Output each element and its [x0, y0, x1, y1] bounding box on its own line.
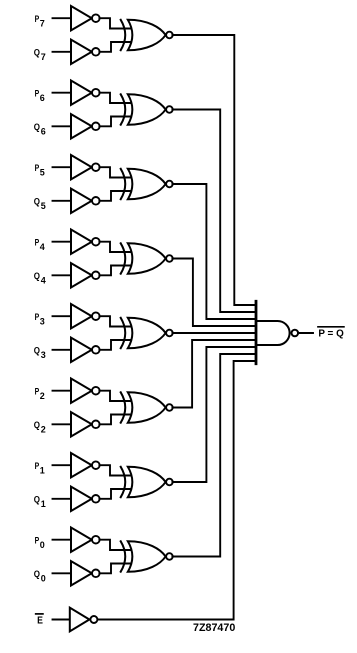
svg-text:2: 2 [40, 391, 45, 401]
inverter P5 [71, 155, 100, 179]
input label Q3 [34, 345, 46, 360]
wire NAND output [298, 332, 313, 334]
inverter Q6 [71, 114, 100, 138]
XNOR gate bit 1 [121, 467, 173, 498]
inverter P4 [71, 230, 100, 254]
svg-text:7: 7 [41, 52, 46, 62]
input label P4 [35, 237, 45, 252]
input label Q5 [34, 196, 46, 211]
wire P7 inverter to XNOR7 [99, 18, 131, 28]
wire P3 input [53, 315, 72, 317]
inverter Q3 [71, 338, 100, 362]
inverter Q5 [71, 189, 100, 213]
wire E inverter to NAND input [98, 361, 257, 620]
wire P0 inverter to XNOR0 [99, 540, 131, 550]
svg-text:Q: Q [34, 494, 40, 505]
input label Q4 [34, 271, 46, 286]
inverter Q1 [71, 487, 100, 511]
wire Q2 inverter to XNOR2 [99, 415, 131, 425]
input label P2 [35, 386, 45, 401]
svg-text:5: 5 [41, 201, 46, 211]
wire P0 input [53, 539, 72, 541]
wire Q4 input [53, 274, 72, 276]
input label E (enable, active low) [36, 614, 43, 627]
inverter P0 [71, 528, 100, 552]
wire XNOR3 output to NAND input [172, 332, 256, 334]
input label P6 [35, 88, 45, 103]
svg-text:7: 7 [40, 19, 45, 29]
NAND gate (9-input, output P=Q) [256, 301, 298, 363]
wire P2 input [53, 390, 72, 392]
wire XNOR2 output to NAND input [172, 340, 256, 408]
inverter P7 [71, 6, 100, 30]
XNOR gate bit 4 [121, 243, 173, 274]
wire P7 input [53, 17, 72, 19]
wire Q6 inverter to XNOR6 [99, 117, 131, 127]
wire Q0 inverter to XNOR0 [99, 564, 131, 574]
inverter Q4 [71, 263, 100, 287]
svg-text:3: 3 [40, 317, 45, 327]
wire P6 input [53, 92, 72, 94]
wire Q3 inverter to XNOR3 [99, 340, 131, 350]
wire P4 input [53, 241, 72, 243]
inverter P3 [71, 304, 100, 328]
XNOR gate bit 6 [121, 94, 173, 125]
wire Q6 input [53, 125, 72, 127]
svg-text:5: 5 [40, 168, 45, 178]
input label Q1 [34, 494, 46, 509]
svg-text:2: 2 [41, 425, 46, 435]
svg-text:Q: Q [34, 420, 40, 431]
wire XNOR5 output to NAND input [172, 184, 256, 319]
XNOR gate bit 3 [121, 318, 173, 349]
wire P1 inverter to XNOR1 [99, 465, 131, 475]
input label Q0 [34, 569, 46, 584]
input label Q2 [34, 420, 46, 435]
svg-text:Q: Q [34, 271, 40, 282]
input label P7 [35, 14, 45, 29]
wire Q4 inverter to XNOR4 [99, 266, 131, 276]
svg-text:6: 6 [41, 127, 46, 137]
wire Q0 input [53, 572, 72, 574]
input label P0 [35, 535, 45, 550]
wire Q7 inverter to XNOR7 [99, 42, 131, 52]
XNOR gate bit 0 [121, 541, 173, 572]
wire P1 input [53, 464, 72, 466]
input label P3 [35, 312, 45, 327]
XNOR gate bit 5 [121, 169, 173, 200]
input label P5 [35, 163, 45, 178]
svg-text:1: 1 [41, 499, 46, 509]
wire Q5 inverter to XNOR5 [99, 191, 131, 201]
svg-text:6: 6 [40, 93, 45, 103]
wire E input [53, 619, 70, 621]
wire P4 inverter to XNOR4 [99, 242, 131, 252]
input label P1 [35, 461, 45, 476]
svg-text:0: 0 [40, 540, 45, 550]
inverter P1 [71, 453, 100, 477]
wire P5 input [53, 166, 72, 168]
wire P5 inverter to XNOR5 [99, 167, 131, 177]
inverter P2 [71, 379, 100, 403]
svg-text:P = Q: P = Q [318, 329, 344, 340]
svg-text:Q: Q [34, 47, 40, 58]
XNOR gate bit 2 [121, 392, 173, 423]
wire XNOR1 output to NAND input [172, 347, 256, 482]
wire P6 inverter to XNOR6 [99, 93, 131, 103]
svg-text:0: 0 [41, 574, 46, 584]
svg-text:4: 4 [40, 242, 45, 252]
inverter Q2 [71, 412, 100, 436]
wire P3 inverter to XNOR3 [99, 316, 131, 326]
wire Q5 input [53, 200, 72, 202]
inverter P6 [71, 81, 100, 105]
wire Q1 input [53, 498, 72, 500]
svg-text:1: 1 [40, 466, 45, 476]
inverter E [70, 608, 98, 632]
wire Q7 input [53, 51, 72, 53]
svg-text:7Z87470: 7Z87470 [193, 622, 235, 634]
inverter Q0 [71, 561, 100, 585]
inverter Q7 [71, 40, 100, 64]
wire P2 inverter to XNOR2 [99, 391, 131, 401]
wire XNOR6 output to NAND input [172, 110, 256, 313]
svg-text:Q: Q [34, 345, 40, 356]
wire Q2 input [53, 423, 72, 425]
wire Q3 input [53, 349, 72, 351]
svg-text:Q: Q [34, 196, 40, 207]
svg-text:Q: Q [34, 569, 40, 580]
svg-text:E: E [37, 616, 43, 627]
XNOR gate bit 7 [121, 20, 173, 51]
wire XNOR7 output to NAND input [172, 35, 256, 305]
svg-text:4: 4 [41, 276, 46, 286]
svg-text:3: 3 [41, 350, 46, 360]
wire XNOR4 output to NAND input [172, 259, 256, 327]
wire Q1 inverter to XNOR1 [99, 489, 131, 499]
input label Q7 [34, 47, 46, 62]
wire XNOR0 output to NAND input [172, 354, 256, 557]
output label P=Q (inverted) [318, 327, 344, 340]
input label Q6 [34, 122, 46, 137]
svg-text:Q: Q [34, 122, 40, 133]
